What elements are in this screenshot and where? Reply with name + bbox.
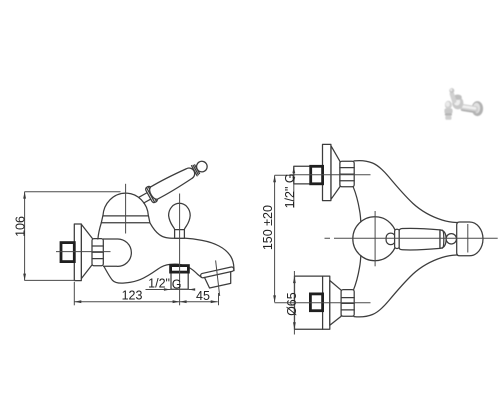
svg-text:45: 45 — [196, 289, 210, 303]
svg-text:123: 123 — [122, 289, 143, 303]
svg-text:1/2" G: 1/2" G — [283, 173, 297, 208]
svg-text:150 ±20: 150 ±20 — [261, 205, 275, 250]
svg-text:106: 106 — [13, 216, 27, 237]
svg-text:G: G — [172, 277, 182, 291]
svg-text:Ø65: Ø65 — [285, 292, 299, 316]
svg-text:1/2": 1/2" — [148, 276, 170, 290]
